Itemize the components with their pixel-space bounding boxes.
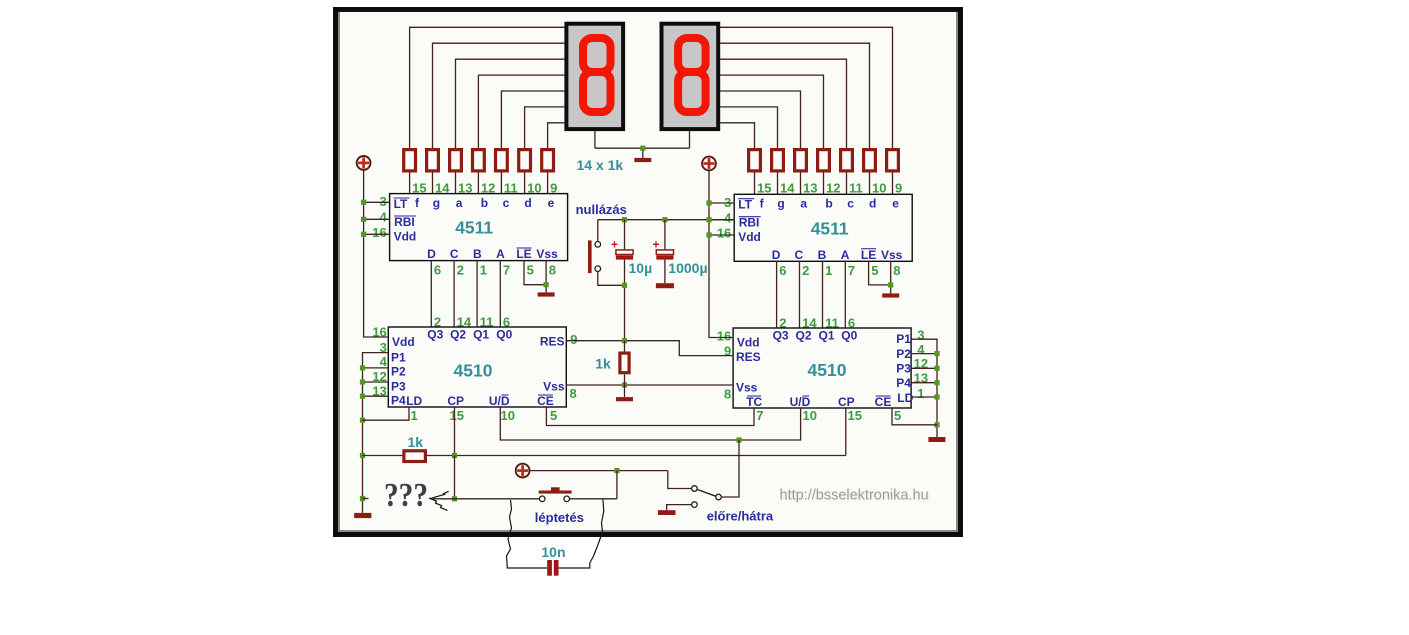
svg-text:LD: LD (897, 391, 913, 405)
svg-text:D: D (772, 248, 781, 262)
svg-text:16: 16 (717, 225, 731, 240)
svg-text:P2: P2 (391, 365, 406, 379)
svg-text:1k: 1k (408, 434, 424, 450)
svg-text:Q0: Q0 (496, 327, 512, 341)
svg-text:LE: LE (516, 247, 531, 261)
svg-text:10: 10 (803, 408, 817, 423)
svg-text:b: b (825, 197, 832, 211)
svg-text:Vss: Vss (736, 381, 758, 395)
svg-text:15: 15 (450, 408, 464, 423)
svg-text:U/D: U/D (790, 395, 811, 409)
svg-text:LE: LE (861, 248, 876, 262)
svg-text:g: g (433, 196, 440, 210)
svg-text:1k: 1k (595, 356, 611, 372)
svg-text:5: 5 (871, 263, 878, 278)
svg-text:P1: P1 (896, 332, 911, 346)
svg-text:8: 8 (570, 386, 577, 401)
svg-text:8: 8 (724, 387, 731, 402)
svg-text:Vdd: Vdd (392, 335, 415, 349)
svg-text:10µ: 10µ (629, 260, 653, 276)
svg-text:B: B (473, 247, 482, 261)
svg-text:5: 5 (550, 408, 557, 423)
svg-text:RES: RES (736, 350, 761, 364)
svg-text:1: 1 (411, 408, 418, 423)
svg-text:nullázás: nullázás (576, 202, 627, 217)
svg-text:RES: RES (540, 335, 565, 349)
svg-text:c: c (503, 196, 510, 210)
svg-text:http://bsselektronika.hu: http://bsselektronika.hu (780, 488, 929, 504)
svg-text:g: g (777, 197, 784, 211)
svg-text:8: 8 (893, 263, 900, 278)
svg-text:a: a (456, 196, 463, 210)
svg-text:A: A (841, 248, 850, 262)
svg-text:TC: TC (746, 395, 762, 409)
svg-text:6: 6 (434, 262, 441, 277)
svg-text:+: + (611, 238, 618, 252)
svg-text:+: + (652, 238, 659, 252)
svg-text:16: 16 (717, 329, 731, 344)
svg-text:16: 16 (372, 225, 386, 240)
svg-text:7: 7 (756, 408, 763, 423)
svg-text:d: d (524, 196, 531, 210)
svg-text:RBI: RBI (394, 215, 415, 229)
svg-text:9: 9 (724, 344, 731, 359)
svg-text:CP: CP (838, 395, 855, 409)
svg-text:P4: P4 (391, 394, 406, 408)
svg-text:P3: P3 (896, 361, 911, 375)
svg-text:5: 5 (894, 408, 901, 423)
svg-text:Q0: Q0 (841, 328, 857, 342)
svg-text:U/D: U/D (489, 394, 510, 408)
svg-text:14 x 1k: 14 x 1k (577, 157, 624, 173)
svg-text:CE: CE (537, 394, 554, 408)
svg-text:1000µ: 1000µ (668, 260, 707, 276)
svg-text:1: 1 (825, 263, 832, 278)
svg-text:léptetés: léptetés (535, 510, 584, 525)
svg-text:Q1: Q1 (473, 327, 489, 341)
svg-text:3: 3 (917, 328, 924, 343)
svg-text:Q2: Q2 (450, 327, 466, 341)
svg-text:4511: 4511 (811, 218, 849, 238)
svg-text:1: 1 (917, 386, 924, 401)
svg-text:7: 7 (848, 263, 855, 278)
svg-text:9: 9 (570, 332, 577, 347)
svg-text:Vdd: Vdd (394, 229, 417, 243)
svg-text:Q2: Q2 (795, 328, 811, 342)
svg-text:P1: P1 (391, 351, 406, 365)
svg-text:10n: 10n (541, 544, 565, 560)
svg-text:7: 7 (503, 262, 510, 277)
svg-text:CE: CE (875, 395, 892, 409)
svg-text:Vss: Vss (536, 247, 558, 261)
svg-text:6: 6 (779, 263, 786, 278)
svg-text:Vdd: Vdd (738, 230, 761, 244)
svg-text:előre/hátra: előre/hátra (707, 508, 774, 523)
svg-text:C: C (450, 247, 459, 261)
svg-text:Vss: Vss (881, 248, 903, 262)
svg-text:P4: P4 (896, 376, 911, 390)
svg-text:Q1: Q1 (818, 328, 834, 342)
svg-text:Vss: Vss (543, 379, 565, 393)
svg-text:C: C (794, 248, 803, 262)
svg-text:Q3: Q3 (427, 327, 443, 341)
svg-text:12: 12 (914, 356, 928, 371)
svg-text:4: 4 (917, 342, 925, 357)
svg-text:8: 8 (549, 262, 556, 277)
svg-text:15: 15 (757, 180, 771, 195)
svg-text:B: B (818, 248, 827, 262)
svg-text:P2: P2 (896, 347, 911, 361)
svg-text:4: 4 (379, 210, 387, 225)
svg-text:P3: P3 (391, 380, 406, 394)
svg-text:LD: LD (406, 394, 422, 408)
svg-text:LT: LT (394, 197, 408, 211)
svg-text:b: b (481, 196, 488, 210)
svg-text:4510: 4510 (808, 360, 847, 380)
svg-text:d: d (869, 197, 876, 211)
svg-text:e: e (892, 197, 899, 211)
svg-text:a: a (800, 197, 807, 211)
svg-text:c: c (847, 197, 854, 211)
svg-text:e: e (548, 196, 555, 210)
svg-text:???: ??? (384, 477, 428, 514)
svg-text:10: 10 (872, 180, 886, 195)
svg-text:LT: LT (738, 198, 752, 212)
svg-text:10: 10 (501, 408, 515, 423)
svg-text:Vdd: Vdd (737, 336, 760, 350)
svg-text:4: 4 (380, 354, 388, 369)
svg-text:RBI: RBI (739, 216, 760, 230)
svg-text:11: 11 (849, 180, 863, 195)
svg-text:2: 2 (457, 262, 464, 277)
svg-text:14: 14 (780, 180, 795, 195)
svg-text:2: 2 (802, 263, 809, 278)
svg-text:1: 1 (480, 262, 487, 277)
svg-text:CP: CP (447, 394, 464, 408)
svg-text:D: D (427, 247, 436, 261)
svg-text:4: 4 (724, 210, 732, 225)
svg-text:5: 5 (527, 262, 534, 277)
svg-text:13: 13 (803, 180, 817, 195)
svg-text:A: A (496, 247, 505, 261)
svg-text:4511: 4511 (455, 218, 493, 238)
svg-text:Q3: Q3 (773, 328, 789, 342)
svg-text:9: 9 (895, 180, 902, 195)
svg-text:15: 15 (848, 408, 862, 423)
svg-text:4510: 4510 (454, 360, 493, 380)
svg-text:12: 12 (826, 180, 840, 195)
